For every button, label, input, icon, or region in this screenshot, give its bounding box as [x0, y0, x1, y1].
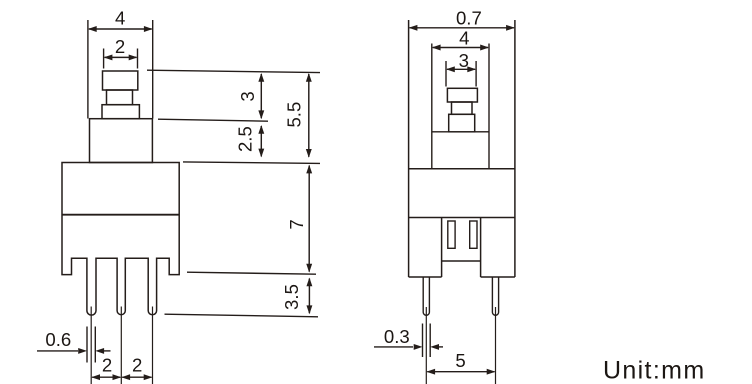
right view: upper body top edge left: [432, 131, 449, 133]
dim 7 line: [308, 166, 310, 272]
svg-text:4: 4: [115, 8, 125, 29]
right view: right outer extension + body side: [514, 20, 516, 277]
right dim 4 line: [433, 47, 488, 49]
right view: left outer extension + body side: [408, 20, 410, 277]
dim 0.7 line: [410, 27, 514, 29]
svg-text:3.5: 3.5: [281, 284, 302, 310]
dim 2.5 line: [260, 126, 262, 156]
left view: pin 2 center line: [120, 307, 122, 384]
svg-text:0.7: 0.7: [456, 7, 482, 28]
dim 3 extension right: [475, 61, 477, 87]
right view: button neck: [452, 102, 473, 114]
leader from cap top: [147, 70, 320, 72]
left view: pin 3 center line: [152, 307, 154, 384]
svg-text:Unit:mm: Unit:mm: [603, 357, 706, 384]
dim 2 tick right: [137, 49, 139, 69]
left view: button step: [102, 105, 139, 119]
right view: slot 2: [470, 221, 477, 248]
dim 0.3 arrow right: [439, 346, 443, 348]
right view: right pin outline: [492, 277, 498, 315]
dim 2 line: [105, 56, 137, 58]
right view: right leg bottom: [481, 276, 515, 278]
leader from button step: [158, 119, 268, 121]
right view: main body top edge: [409, 168, 515, 170]
dim 4 extension left (upper body side): [431, 44, 433, 169]
leader from foot bottom: [187, 272, 316, 274]
dim 0.3 tick right: [429, 324, 431, 358]
dim 2 pin pitch right line: [122, 376, 151, 378]
dim 2 tick left: [103, 49, 105, 69]
right view: right pin center line: [495, 307, 497, 384]
right view: button step: [449, 114, 475, 132]
right view: upper body top edge right: [475, 131, 489, 133]
svg-text:2: 2: [102, 355, 112, 376]
right view: left pin outline: [423, 277, 429, 315]
svg-text:0.6: 0.6: [45, 329, 71, 350]
svg-text:3: 3: [237, 91, 258, 101]
svg-text:2.5: 2.5: [235, 126, 256, 152]
svg-text:4: 4: [459, 28, 469, 49]
left view: main body outline with feet and 3 pins: [62, 163, 179, 316]
dim 2 pin pitch left line: [92, 376, 120, 378]
right view: web bottom line: [442, 260, 481, 262]
dim 3.5 line: [308, 279, 310, 314]
dim 0.3 tick left: [422, 324, 424, 358]
right view: left pin center line: [425, 307, 427, 384]
dim 0.6 tick right: [94, 327, 96, 363]
svg-text:3: 3: [459, 50, 469, 71]
svg-text:0.3: 0.3: [384, 326, 410, 347]
dim 0.6 tick left: [86, 327, 88, 363]
left view: button neck: [107, 90, 133, 105]
right view: main body bottom edge: [409, 217, 515, 219]
leader from pin tips: [165, 314, 319, 317]
dim 5.5 line: [308, 74, 310, 157]
dim 0.3 leader and arrow left: [374, 346, 413, 348]
svg-text:2: 2: [132, 355, 142, 376]
dim 3 extension left: [445, 61, 447, 87]
right view: slot 1: [448, 221, 455, 248]
dim 4 extension line left: [87, 20, 89, 119]
right view: button cap: [447, 88, 477, 102]
svg-text:2: 2: [115, 36, 125, 57]
right view: right leg inner edge: [480, 218, 482, 278]
svg-text:5.5: 5.5: [284, 102, 305, 128]
svg-text:7: 7: [286, 219, 307, 229]
dim 4 extension line right: [152, 20, 154, 119]
leader from body top: [183, 162, 320, 164]
right view: left leg bottom: [409, 276, 442, 278]
svg-text:5: 5: [455, 350, 465, 371]
left view: body mid seam line: [62, 214, 179, 216]
dim 3 line: [260, 74, 262, 118]
dim 0.6 arrow right: [104, 350, 111, 352]
right view: left leg inner edge: [441, 218, 443, 278]
left view: button cap: [103, 71, 138, 90]
dim 4 line: [89, 28, 152, 30]
dim 4 extension right (upper body side): [488, 44, 490, 169]
left view: upper body: [90, 119, 153, 163]
left view: pin 1 center line: [90, 307, 92, 384]
dim 0.6 leader and arrow left: [37, 350, 78, 352]
dim 5 line: [427, 371, 494, 373]
right dim 3 line: [447, 68, 475, 70]
